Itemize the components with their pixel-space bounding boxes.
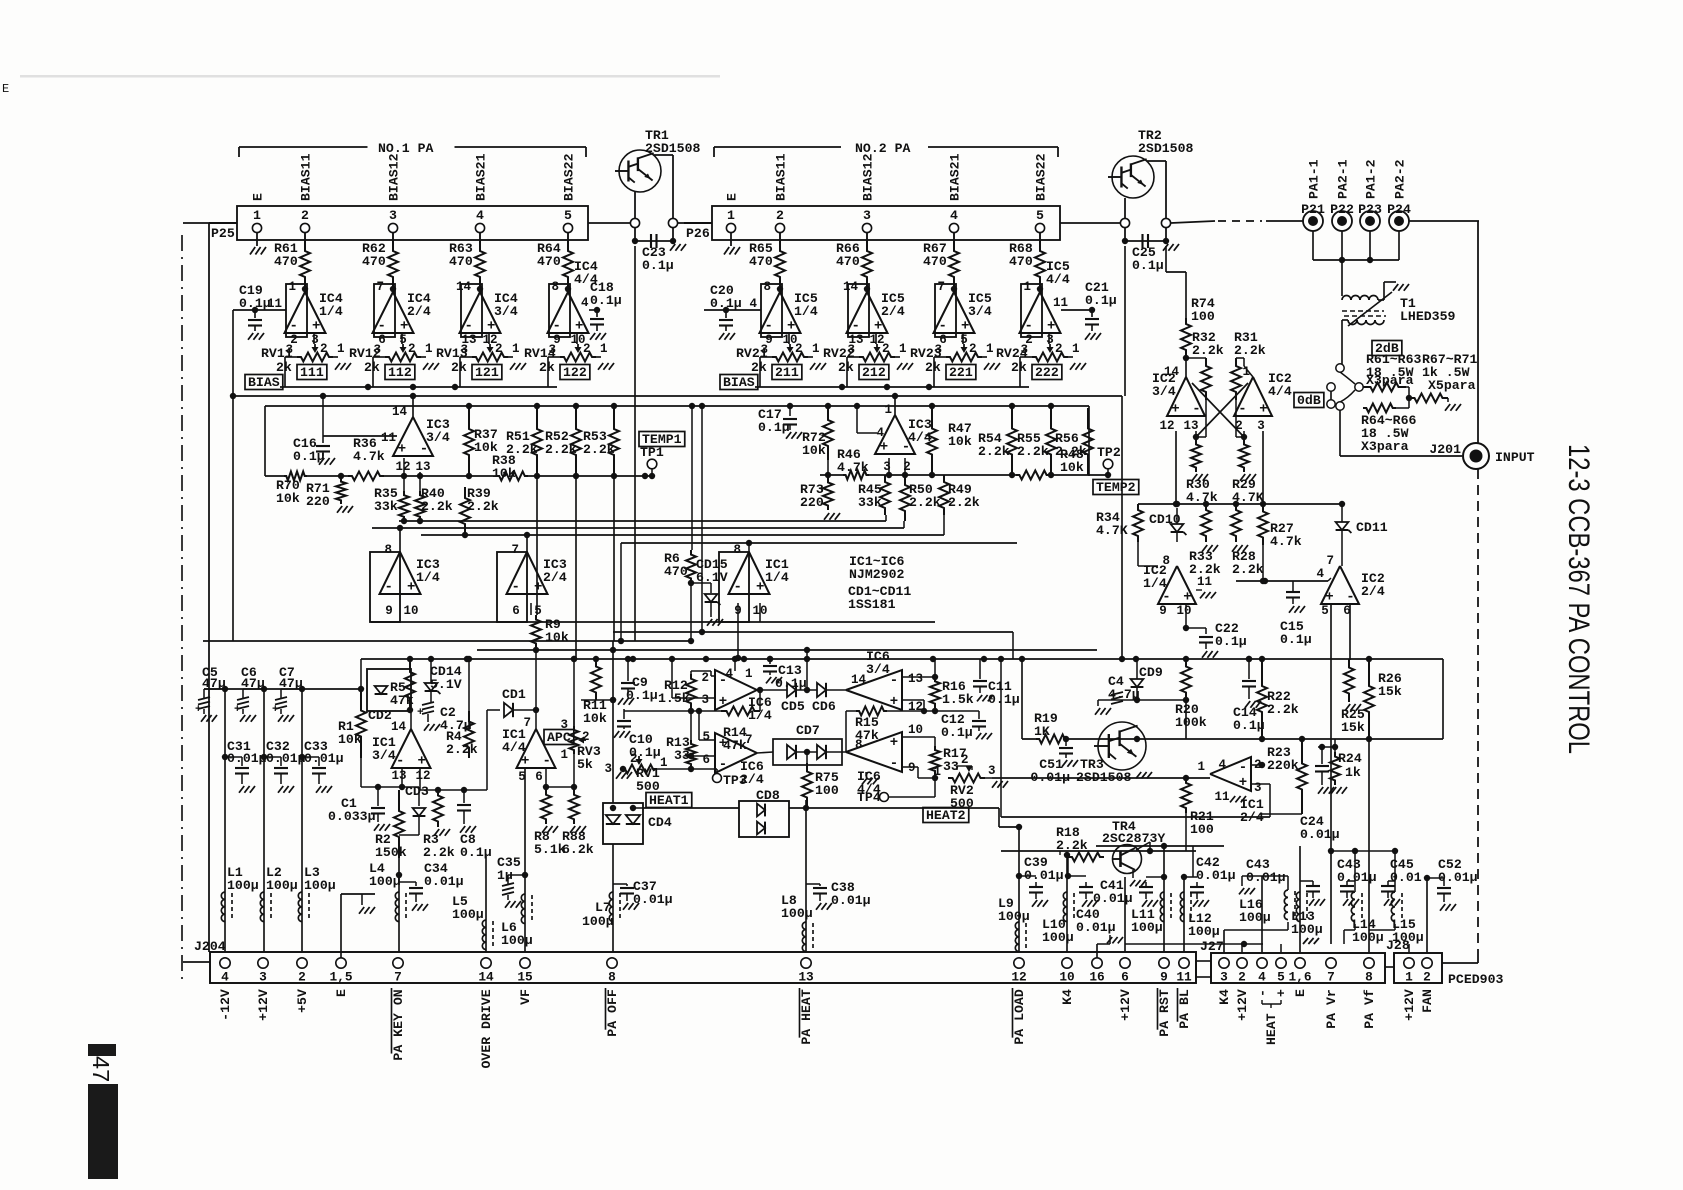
junction [611, 403, 617, 409]
junction [407, 707, 413, 713]
wire [621, 542, 1017, 544]
op-amp IC4 2/4 [374, 284, 395, 337]
wire [1312, 231, 1314, 260]
resistor R39 [460, 487, 470, 535]
wire [535, 710, 537, 729]
pin 8 [607, 958, 617, 968]
capacitor C23 [635, 240, 673, 242]
wire [463, 790, 465, 803]
wire [633, 807, 643, 809]
ground [542, 826, 547, 833]
svg-text:P23: P23 [1358, 202, 1382, 217]
wire [477, 649, 1097, 651]
resistor R22 [1257, 659, 1267, 739]
junction [1246, 656, 1252, 662]
svg-text:6.2k: 6.2k [562, 842, 594, 857]
wire [528, 475, 652, 477]
resistor R29 [1239, 440, 1249, 472]
wire [1213, 943, 1263, 945]
svg-text:8: 8 [1365, 970, 1373, 985]
label 211 [772, 365, 802, 380]
junction [804, 647, 810, 653]
junction [452, 384, 458, 390]
svg-text:7: 7 [937, 280, 945, 294]
svg-text:0.01μ: 0.01μ [1196, 868, 1236, 883]
svg-text:0.01μ: 0.01μ [304, 751, 344, 766]
svg-text:13: 13 [1183, 419, 1198, 433]
wire [1341, 504, 1343, 522]
svg-text:7: 7 [376, 280, 384, 294]
label 122 [560, 365, 590, 380]
wire [1409, 220, 1479, 222]
svg-text:100μ: 100μ [1131, 920, 1163, 935]
component [1111, 692, 1123, 695]
ground [766, 677, 771, 683]
resistor R64 [567, 232, 569, 240]
inductor L2 [260, 892, 264, 899]
svg-text:3: 3 [1220, 970, 1228, 985]
wire [232, 395, 1122, 397]
svg-text:BIAS: BIAS [248, 375, 280, 390]
svg-text:+: + [195, 704, 202, 716]
ground [1445, 404, 1450, 411]
wire [1394, 851, 1396, 881]
junction [565, 286, 571, 292]
wire [934, 775, 936, 797]
wire [1261, 876, 1263, 953]
pin 13 [801, 958, 811, 968]
wire [265, 405, 1089, 407]
wire [759, 603, 761, 622]
wire [856, 406, 858, 433]
svg-text:1: 1 [560, 748, 568, 762]
wire [573, 710, 575, 726]
junction [1203, 501, 1209, 507]
ground [1232, 545, 1237, 552]
svg-text:4.7k: 4.7k [1270, 534, 1302, 549]
wire [827, 460, 829, 475]
wire [1330, 605, 1332, 944]
wire [377, 787, 379, 806]
wire [796, 751, 817, 753]
component [1036, 735, 1068, 744]
svg-text:-12V: -12V [218, 989, 233, 1021]
junction [932, 674, 938, 680]
wire [671, 659, 673, 698]
wire [524, 767, 526, 952]
svg-text:11: 11 [1214, 790, 1229, 804]
wire [1300, 880, 1313, 882]
svg-text:4: 4 [1258, 970, 1266, 985]
op-amp IC5 1/4 [761, 284, 782, 337]
wire [421, 534, 944, 536]
svg-text:1.5k: 1.5k [942, 692, 974, 707]
component [570, 726, 579, 754]
resistor R45 [880, 475, 890, 515]
svg-text:15: 15 [517, 970, 533, 985]
svg-text:1: 1 [727, 208, 735, 223]
ground [1384, 899, 1389, 906]
wire [322, 396, 324, 436]
wire [613, 476, 615, 641]
wire [985, 777, 992, 779]
svg-text:-: - [1238, 402, 1246, 418]
wire [690, 671, 692, 676]
svg-text:0.01μ: 0.01μ [1246, 870, 1286, 885]
junction [630, 805, 636, 811]
junction [735, 655, 741, 661]
svg-text:0.1μ: 0.1μ [590, 293, 622, 308]
svg-text:INPUT: INPUT [1495, 450, 1535, 465]
junction [902, 472, 908, 478]
svg-text:0.1μ: 0.1μ [1280, 632, 1312, 647]
svg-text:NO.1 PA: NO.1 PA [378, 141, 433, 156]
wire [1342, 310, 1384, 312]
component [392, 729, 431, 768]
junction [929, 403, 935, 409]
svg-text:221: 221 [949, 365, 973, 380]
diode CD11 [1336, 522, 1349, 530]
svg-text:+: + [1259, 402, 1267, 418]
label BIAS [720, 375, 758, 390]
svg-text:1,6: 1,6 [1288, 970, 1311, 985]
svg-text:1: 1 [288, 280, 296, 294]
svg-text:1.5k: 1.5k [658, 691, 690, 706]
svg-text:2SD1508: 2SD1508 [645, 141, 700, 156]
svg-text:10k: 10k [802, 443, 826, 458]
resistor R51 [532, 408, 542, 476]
svg-text:2: 2 [1238, 970, 1246, 985]
svg-text:RV11: RV11 [261, 346, 293, 361]
wire [418, 787, 420, 806]
pin 16 [1092, 958, 1102, 968]
ground [278, 715, 283, 722]
svg-text:6: 6 [512, 604, 520, 618]
box [739, 801, 789, 837]
wire [643, 807, 739, 809]
svg-text:0.01μ: 0.01μ [1076, 920, 1116, 935]
junction [534, 473, 540, 479]
junction [375, 784, 381, 790]
wire [902, 736, 935, 738]
wire [1165, 246, 1167, 272]
junction [1262, 578, 1268, 584]
wire [486, 710, 488, 790]
junction [1183, 625, 1189, 631]
wire [1138, 565, 1158, 567]
svg-text:1: 1 [337, 342, 345, 356]
wire [1140, 847, 1148, 853]
svg-text:11: 11 [1176, 970, 1192, 985]
ground [335, 363, 340, 370]
junction [1260, 501, 1266, 507]
svg-text:1SS181: 1SS181 [848, 597, 896, 612]
svg-text:12-3 CCB-367 PA CONTROL: 12-3 CCB-367 PA CONTROL [1562, 444, 1595, 754]
svg-text:PA Vf: PA Vf [1362, 989, 1377, 1029]
svg-text:47: 47 [88, 1056, 114, 1082]
svg-text:+: + [880, 440, 888, 456]
pin 4 [1257, 958, 1267, 968]
svg-text:100μ: 100μ [1042, 930, 1074, 945]
svg-text:9: 9 [1159, 604, 1167, 618]
svg-text:+5V: +5V [295, 989, 310, 1013]
junction [222, 754, 228, 760]
svg-text:PA2-2: PA2-2 [1393, 159, 1408, 199]
svg-text:2.2k: 2.2k [1234, 343, 1266, 358]
svg-text:10k: 10k [474, 440, 498, 455]
svg-text:10k: 10k [276, 491, 300, 506]
junction [620, 766, 626, 772]
junction [1016, 873, 1022, 879]
junction [417, 518, 423, 524]
junction [230, 393, 236, 399]
ground [1240, 474, 1245, 481]
svg-text:PA HEAT: PA HEAT [799, 989, 814, 1044]
svg-text:3: 3 [604, 762, 612, 776]
junction [299, 686, 305, 692]
potentiometer RV14 [560, 353, 596, 362]
wire [573, 659, 575, 726]
svg-text:K4: K4 [1217, 989, 1232, 1005]
svg-text:2k: 2k [751, 360, 767, 375]
wire [1218, 220, 1262, 222]
svg-text:2: 2 [630, 752, 638, 766]
wire [691, 755, 715, 757]
ground [1200, 592, 1205, 598]
component [517, 729, 556, 768]
svg-text:4.7k: 4.7k [837, 460, 869, 475]
junction [803, 805, 809, 811]
resistor R61 [304, 232, 306, 240]
wire [1243, 431, 1245, 437]
wire [1368, 739, 1370, 953]
capacitor C5 [224, 689, 226, 952]
wire [1328, 578, 1331, 581]
ground [897, 363, 902, 370]
wire [1477, 469, 1479, 955]
potentiometer RV12 [385, 353, 421, 362]
junction [1352, 848, 1358, 854]
junction [543, 784, 549, 790]
wire [1205, 400, 1207, 437]
svg-text:15k: 15k [1341, 720, 1365, 735]
junction [1122, 238, 1128, 244]
wire [1344, 929, 1355, 931]
wire [573, 754, 575, 787]
svg-text:HEAT2: HEAT2 [926, 808, 966, 823]
wire [1330, 846, 1332, 851]
connector P22 [1332, 211, 1352, 231]
svg-text:33k: 33k [858, 495, 882, 510]
svg-text:APC: APC [547, 730, 571, 745]
op-amp IC3 1/4 [370, 552, 400, 622]
wire [1060, 222, 1120, 224]
wire [1175, 431, 1177, 504]
svg-text:FAN: FAN [1420, 989, 1435, 1013]
wire [749, 809, 757, 811]
wire [1022, 738, 1036, 740]
wire [1301, 813, 1303, 815]
svg-text:220k: 220k [1267, 758, 1299, 773]
resistor R71 [336, 478, 346, 504]
label 222 [1032, 365, 1062, 380]
svg-text:470: 470 [664, 564, 688, 579]
ground [616, 772, 621, 779]
junction [1241, 941, 1247, 947]
svg-text:0.01μ: 0.01μ [1093, 891, 1133, 906]
capacitor C6 [263, 689, 265, 952]
svg-text:PA2-1: PA2-1 [1336, 159, 1351, 199]
resistor R62 [392, 232, 394, 240]
ground [1095, 708, 1100, 715]
junction [981, 656, 987, 662]
wire [183, 222, 209, 224]
junction [1424, 875, 1430, 881]
svg-text:2SC2873Y: 2SC2873Y [1102, 831, 1165, 846]
svg-text:9: 9 [1160, 970, 1168, 985]
svg-text:10k: 10k [948, 434, 972, 449]
component [393, 417, 433, 456]
wire [1236, 580, 1328, 582]
wire [1059, 851, 1061, 855]
junction [1016, 824, 1022, 830]
svg-text:100μ: 100μ [227, 878, 259, 893]
svg-text:11: 11 [1053, 296, 1068, 310]
svg-text:OVER DRIVE: OVER DRIVE [479, 989, 494, 1068]
wire [360, 758, 362, 787]
wire [412, 396, 414, 417]
junction [825, 403, 831, 409]
ground [984, 363, 989, 370]
ground [1202, 545, 1207, 552]
svg-text:2.2k: 2.2k [467, 499, 499, 514]
svg-text:-: - [890, 756, 898, 772]
svg-text:BIAS11: BIAS11 [774, 153, 789, 201]
svg-text:13: 13 [798, 970, 814, 985]
wire [430, 691, 432, 703]
svg-text:2/4: 2/4 [1361, 584, 1385, 599]
wire [1385, 966, 1394, 968]
svg-text:2: 2 [298, 970, 306, 985]
svg-text:TP1: TP1 [640, 445, 664, 460]
ground [505, 901, 510, 908]
junction [1105, 472, 1111, 478]
wire [1192, 383, 1244, 437]
svg-text:1: 1 [1023, 280, 1031, 294]
svg-text:211: 211 [775, 365, 799, 380]
ground [824, 513, 829, 520]
svg-text:2.2k: 2.2k [948, 495, 980, 510]
svg-text:100: 100 [815, 783, 839, 798]
svg-text:5.1V: 5.1V [430, 677, 462, 692]
junction [886, 472, 892, 478]
op-amp IC3 2/4 [497, 552, 527, 622]
resistor R16 [930, 677, 940, 708]
junction [396, 872, 402, 878]
wire [1348, 292, 1392, 326]
svg-text:+: + [719, 736, 727, 752]
svg-text:6: 6 [1121, 970, 1129, 985]
svg-text:+: + [398, 442, 406, 458]
svg-text:0.1μ: 0.1μ [758, 420, 790, 435]
wire [536, 476, 538, 615]
component [1363, 383, 1406, 392]
resistor R56 [1083, 408, 1093, 475]
component [1059, 747, 1073, 749]
svg-text:4: 4 [1316, 567, 1324, 581]
svg-text:2: 2 [961, 753, 969, 767]
junction [401, 518, 407, 524]
junction [1181, 874, 1187, 880]
component [1321, 566, 1359, 604]
resistor R35 [399, 491, 409, 521]
svg-text:3/4: 3/4 [968, 304, 992, 319]
component [1234, 377, 1272, 416]
wire [232, 310, 234, 641]
test point TP3 [716, 769, 718, 773]
svg-text:PA RST: PA RST [1157, 989, 1172, 1037]
svg-text:+12V: +12V [1235, 989, 1250, 1021]
resistor R26 [1364, 659, 1374, 739]
ground [423, 363, 428, 370]
svg-text:13: 13 [908, 672, 923, 686]
wire [1341, 260, 1343, 296]
junction [757, 687, 763, 693]
wire [657, 768, 717, 770]
svg-text:150k: 150k [375, 845, 407, 860]
junction [699, 403, 705, 409]
wire [1205, 628, 1207, 634]
svg-text:PA BL: PA BL [1177, 989, 1192, 1029]
wire [651, 469, 653, 476]
wire [806, 650, 808, 690]
svg-text:10: 10 [1176, 604, 1191, 618]
svg-text:RV13: RV13 [436, 346, 468, 361]
svg-text:6: 6 [535, 770, 543, 784]
junction [533, 707, 539, 713]
ground [1239, 888, 1244, 894]
junction [1133, 656, 1139, 662]
svg-text:BIAS21: BIAS21 [474, 153, 489, 201]
svg-text:100μ: 100μ [452, 907, 484, 922]
junction [1065, 873, 1071, 879]
ground [1070, 363, 1075, 370]
svg-text:1k: 1k [1345, 765, 1361, 780]
op-amp IC1 1/4 [719, 552, 749, 622]
wire [701, 406, 703, 632]
wire [624, 710, 721, 712]
svg-text:+: + [756, 580, 764, 596]
svg-text:E: E [2, 82, 9, 96]
wire [264, 406, 266, 476]
wire [1096, 944, 1098, 963]
ground [1318, 787, 1323, 794]
svg-text:2: 2 [1423, 970, 1431, 985]
svg-text:-: - [734, 580, 742, 596]
svg-text:2.2k: 2.2k [421, 499, 453, 514]
wire [1065, 739, 1067, 746]
junction [649, 473, 655, 479]
svg-text:-: - [396, 754, 404, 770]
wire [1262, 875, 1288, 877]
resistor R25 [1344, 659, 1354, 702]
wire [1223, 930, 1225, 953]
wire [427, 714, 429, 722]
wire [1331, 850, 1395, 852]
junction [1241, 434, 1247, 440]
resistor R2 [394, 790, 404, 858]
svg-text:-: - [1192, 402, 1200, 418]
